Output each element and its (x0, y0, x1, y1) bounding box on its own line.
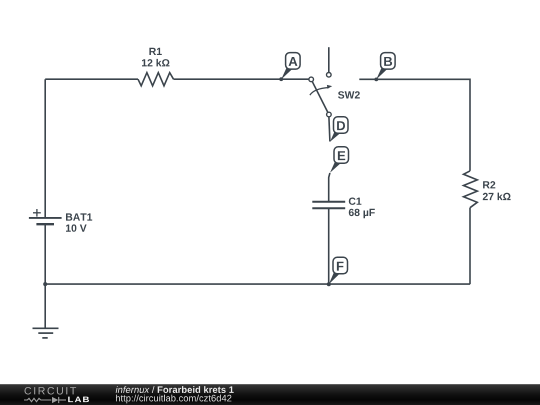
logo word CIRCUIT (25, 387, 77, 395)
node B label callout (376, 53, 395, 80)
BAT1 value label 10 V (66, 224, 87, 231)
wire: R2 bottom down to bottom-right corner (469, 208, 471, 285)
wire: bottom horizontal rail (45, 283, 470, 285)
node A label callout (281, 53, 300, 80)
C1 label (349, 198, 362, 205)
node D label callout (330, 117, 348, 142)
C1 value label 68 uF (349, 209, 375, 219)
R1 label (149, 48, 161, 55)
wire: top-left horizontal from battery branch to R1 (45, 78, 138, 80)
wire: battery minus down through junction to ground (44, 224, 46, 328)
node A letter (289, 57, 298, 66)
wire: switch bottom terminal stub to node D (329, 117, 330, 142)
wire: node B horizontal and right corner down to R2 (359, 79, 470, 171)
footer title text (116, 386, 234, 393)
wire: node E down to C1 top plate (329, 173, 330, 202)
node F junction dot (327, 282, 331, 286)
node D letter (337, 121, 345, 130)
node E label callout (330, 147, 349, 173)
junction dot bottom-left (43, 282, 47, 286)
node E letter (338, 151, 345, 160)
SW2 label (338, 91, 360, 98)
R1 value label 12 kOhm (142, 59, 170, 67)
node F label callout (329, 257, 348, 284)
node B letter (384, 57, 392, 66)
switch SW2 (309, 47, 332, 117)
ground (33, 328, 59, 338)
wire: R1 to switch pole at node A (174, 78, 309, 80)
node B junction dot (374, 78, 378, 82)
resistor R2 (464, 171, 478, 208)
footer bar (0, 384, 540, 405)
R2 value label 27 kOhm (483, 193, 511, 201)
wire: left vertical from top wire down to battery plus (44, 79, 46, 218)
resistor R1 (138, 73, 174, 86)
battery BAT1 (29, 209, 62, 224)
logo diode triangle (52, 397, 58, 403)
capacitor C1 (312, 202, 345, 208)
node A junction dot (279, 77, 283, 81)
footer url text (116, 395, 231, 404)
R2 label (483, 181, 495, 188)
BAT1 label (66, 213, 92, 220)
logo resistor squiggle and diode (24, 397, 66, 403)
logo word LAB (68, 397, 89, 403)
wire: C1 bottom plate to node F (328, 208, 330, 284)
node F letter (337, 262, 344, 271)
